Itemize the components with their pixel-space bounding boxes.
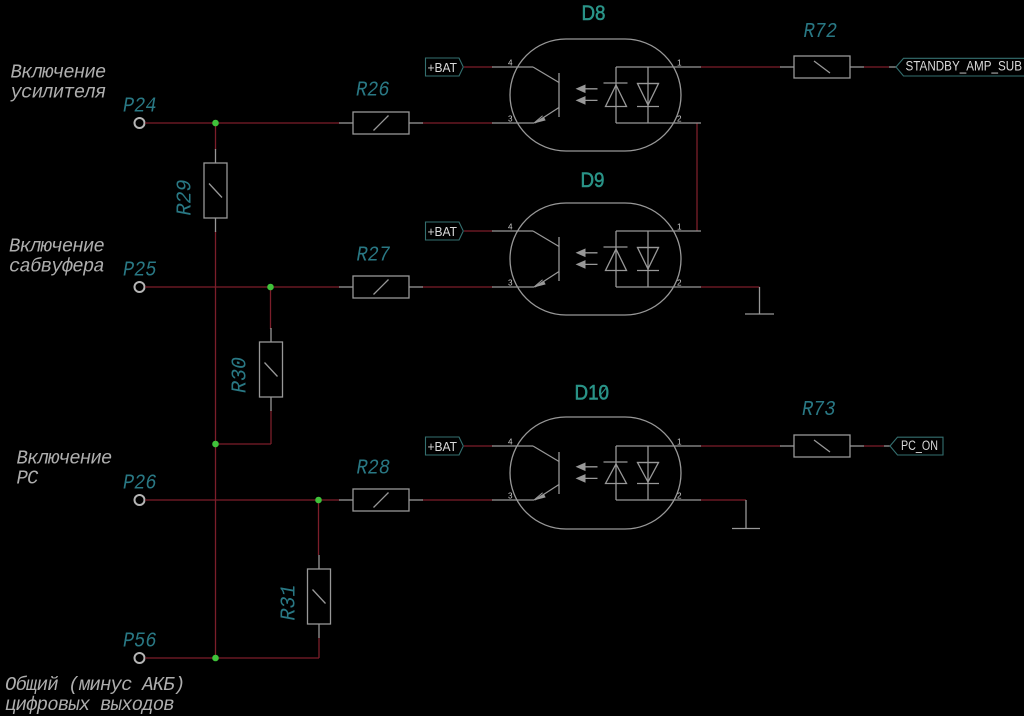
- svg-text:сабвуфера: сабвуфера: [9, 255, 104, 277]
- svg-text:R30: R30: [229, 357, 253, 393]
- svg-text:3: 3: [508, 491, 513, 500]
- svg-text:2: 2: [677, 491, 682, 500]
- svg-text:Включение: Включение: [17, 447, 112, 469]
- svg-text:R72: R72: [804, 20, 838, 44]
- svg-text:4: 4: [508, 437, 513, 446]
- svg-text:2: 2: [677, 114, 682, 123]
- svg-text:+BAT: +BAT: [428, 224, 458, 239]
- svg-text:3: 3: [508, 278, 513, 287]
- svg-text:D9: D9: [581, 168, 605, 192]
- svg-text:D10: D10: [575, 381, 610, 405]
- svg-text:PC_ON: PC_ON: [901, 438, 938, 453]
- svg-text:R27: R27: [357, 244, 391, 268]
- svg-text:Включение: Включение: [9, 235, 104, 257]
- svg-text:R26: R26: [356, 79, 390, 103]
- svg-text:P24: P24: [123, 95, 157, 119]
- svg-text:R28: R28: [357, 457, 391, 481]
- svg-text:цифровых выходов: цифровых выходов: [5, 694, 174, 716]
- svg-text:PC: PC: [17, 467, 40, 489]
- svg-text:1: 1: [677, 437, 682, 446]
- svg-text:D8: D8: [582, 1, 606, 25]
- svg-text:+BAT: +BAT: [428, 60, 458, 75]
- svg-text:P56: P56: [123, 630, 157, 654]
- svg-text:Общий (минус АКБ): Общий (минус АКБ): [5, 674, 184, 696]
- svg-text:Включение: Включение: [11, 61, 106, 83]
- svg-text:4: 4: [508, 222, 513, 231]
- svg-text:+BAT: +BAT: [428, 439, 458, 454]
- svg-text:P25: P25: [123, 259, 157, 283]
- svg-text:усилителя: усилителя: [10, 81, 106, 103]
- svg-text:R73: R73: [802, 398, 836, 422]
- svg-text:1: 1: [677, 58, 682, 67]
- svg-text:3: 3: [508, 114, 513, 123]
- svg-text:1: 1: [677, 222, 682, 231]
- svg-text:P26: P26: [123, 472, 157, 496]
- svg-text:STANDBY_AMP_SUB: STANDBY_AMP_SUB: [906, 59, 1023, 74]
- svg-text:R31: R31: [278, 585, 302, 621]
- svg-text:4: 4: [508, 58, 513, 67]
- svg-text:R29: R29: [174, 179, 198, 215]
- svg-text:2: 2: [677, 278, 682, 287]
